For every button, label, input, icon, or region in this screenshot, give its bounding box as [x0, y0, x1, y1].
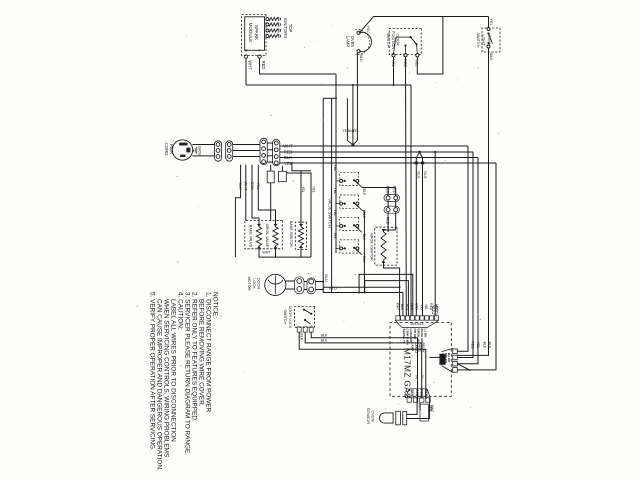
wire lock circuit second [331, 98, 333, 292]
M2 mating connector [439, 354, 445, 365]
door lock switch contacts [303, 309, 305, 311]
door lock motor [265, 274, 286, 295]
svg-text:YEL: YEL [311, 186, 315, 193]
wires between connector blocks [267, 142, 272, 144]
wire plug L1 [192, 144, 214, 146]
wire bus WHT upper [416, 145, 468, 147]
wire lamp blk to funnel [356, 53, 358, 141]
inline connector square 2 [279, 171, 287, 181]
svg-text:BLU: BLU [405, 304, 409, 311]
svg-text:GRN: GRN [197, 146, 202, 155]
valve switch 4 contacts [356, 247, 359, 250]
wire door sw red2 [405, 57, 408, 316]
svg-text:P1: P1 [420, 375, 424, 379]
svg-text:LIGHT: LIGHT [481, 34, 485, 46]
svg-text:LABEL ALL WIRES PRIOR TO DISCO: LABEL ALL WIRES PRIOR TO DISCONNECTION [170, 299, 177, 442]
svg-text:BAKE VALVE: BAKE VALVE [248, 225, 252, 248]
funnel convergence into WHT bus [353, 141, 358, 145]
svg-text:BLK: BLK [362, 211, 366, 218]
svg-text:WHT: WHT [430, 405, 434, 412]
valve switch 2 contacts [356, 202, 359, 205]
wire bus YEL upper [405, 162, 496, 164]
wire top bus vertical [373, 16, 489, 18]
terminal L [258, 55, 261, 58]
wire valve switch blade feeds [362, 187, 396, 189]
wire valve returns [259, 246, 311, 258]
wire stub to blu 1 [358, 274, 360, 292]
wire bake ignitor feed [292, 163, 311, 171]
svg-text:ORN: ORN [410, 303, 414, 311]
oven lamp [359, 32, 372, 51]
svg-text:BLK: BLK [400, 304, 404, 311]
bake valve coil [256, 227, 261, 246]
valve switch 1 box [340, 172, 359, 185]
svg-text:SPARK: SPARK [254, 25, 259, 41]
svg-text:BLK: BLK [299, 333, 303, 340]
clock connector pins [426, 398, 430, 402]
wire blade bus to blu [363, 211, 365, 293]
valve switch 1 contacts [356, 179, 359, 182]
terminal block row 2 [226, 141, 233, 161]
svg-text:BKRD: BKRD [424, 389, 428, 399]
svg-text:MODULE: MODULE [248, 23, 253, 43]
svg-text:BAKE IGNITOR: BAKE IGNITOR [289, 221, 293, 247]
wire bake ignitor return [300, 247, 302, 257]
valve switch 4 box [340, 240, 359, 253]
wire M2 run 4 [457, 163, 496, 370]
bake ignitor dashed box [295, 222, 306, 249]
svg-text:VIO: VIO [419, 305, 423, 311]
spark module body [245, 17, 265, 51]
control header funnel [428, 320, 439, 327]
wires motor to connectors [286, 280, 295, 282]
broil ignitor dashed box [375, 227, 397, 265]
svg-text:RED: RED [261, 61, 266, 70]
connector block row 4 [273, 139, 280, 165]
svg-text:RED: RED [385, 186, 389, 194]
svg-text:BLK: BLK [489, 53, 494, 61]
spark module dashed enclosure [242, 15, 267, 56]
svg-text:CORD: CORD [164, 143, 169, 156]
dsi connector pair 1 [384, 194, 399, 201]
svg-text:P4: P4 [414, 375, 418, 379]
broil ignitor element [381, 232, 386, 260]
wire dsi feed lower [387, 188, 389, 196]
wire bus RED vertical [280, 151, 410, 153]
terminal N [244, 55, 247, 58]
wire bus BLK vertical [280, 157, 423, 159]
svg-text:BLU: BLU [324, 274, 329, 282]
svg-text:WHT: WHT [395, 303, 399, 310]
inline connector square 1 [267, 171, 274, 183]
svg-text:SWITCH: SWITCH [283, 310, 287, 325]
svg-text:OVEN: OVEN [487, 35, 491, 46]
svg-text:DOOR LOCK: DOOR LOCK [288, 306, 292, 329]
wire light switch to M2 [458, 48, 489, 355]
svg-text:YEL: YEL [424, 304, 428, 310]
wire dsi feed upper [395, 188, 397, 196]
wire bus YEL vertical [280, 162, 405, 164]
wire from square 1 to valve box [270, 183, 272, 221]
svg-text:SWITCH: SWITCH [386, 33, 390, 48]
dsi connector pair 2 [384, 206, 399, 213]
svg-text:DOOR: DOOR [256, 278, 260, 290]
wire BLU main [323, 98, 403, 315]
V convergence on red bus [420, 152, 423, 158]
svg-text:BLK: BLK [417, 171, 421, 179]
door lock motor connector 2 [307, 278, 315, 294]
svg-text:IGNITORS: IGNITORS [283, 18, 288, 38]
svg-text:YEL: YEL [366, 25, 370, 32]
wire L red feed [260, 58, 337, 74]
svg-text:BLK: BLK [362, 256, 366, 263]
svg-text:YEL: YEL [333, 165, 337, 172]
scan speckles [444, 160, 445, 161]
wire valve feed 1 [235, 165, 240, 258]
valve switch 3 box [340, 217, 359, 230]
wire companion low to funnel [346, 98, 348, 140]
svg-text:YEL: YEL [333, 210, 337, 217]
wire nested L 3 [323, 287, 399, 315]
clock receptacle [420, 404, 428, 421]
wire bus RED upper [410, 151, 473, 153]
door position switch contacts [416, 54, 419, 57]
M2 connector funnel [442, 348, 453, 351]
svg-text:YEL: YEL [301, 186, 305, 193]
connector ticks on feed [421, 161, 424, 163]
svg-text:SWITCH: SWITCH [476, 33, 480, 48]
wire broil ignitor leads [384, 230, 396, 232]
door position switch dashed box [389, 29, 421, 55]
svg-text:GRY: GRY [415, 303, 419, 311]
svg-text:BEFORE REMOVING WIRE COVER.: BEFORE REMOVING WIRE COVER. [198, 299, 205, 407]
clock connector funnel [427, 389, 430, 398]
wire bus BLK upper [423, 157, 479, 159]
svg-text:RED: RED [429, 303, 433, 310]
wire nested L 2 [365, 281, 409, 316]
svg-text:RED: RED [470, 341, 474, 349]
wire header feed BLK [422, 158, 424, 316]
svg-text:YEL: YEL [476, 342, 480, 349]
wire valve switch bottom bus [335, 74, 337, 253]
diagonal wire at M2 [457, 364, 470, 371]
control header pins [434, 316, 438, 320]
wire bake valve feed [258, 218, 260, 227]
gas valve dashed box [245, 221, 283, 249]
svg-text:BLK: BLK [487, 342, 491, 349]
door lock switch dashed box [295, 307, 315, 328]
svg-text:BROIL VALVE: BROIL VALVE [265, 224, 269, 248]
door lock motor connector 1 [295, 277, 304, 294]
svg-text:WHT: WHT [262, 251, 271, 255]
bake ignitor element [298, 227, 303, 245]
svg-text:M17MZ GAS: M17MZ GAS [402, 348, 411, 399]
connector block row 3 [260, 138, 267, 164]
svg-text:YEL: YEL [333, 187, 337, 194]
svg-text:BLU: BLU [329, 285, 337, 290]
svg-text:3. SERVICER PLEASE RETURN DIAG: 3. SERVICER PLEASE RETURN DIAGRAM TO RAN… [184, 292, 191, 455]
svg-text:MOTOR: MOTOR [247, 276, 251, 290]
wire door sw yel1 [393, 57, 395, 85]
wire header feed neutral [410, 85, 412, 316]
wire door sw yel3 [417, 17, 443, 75]
wires between terminal blocks [233, 144, 260, 146]
spark electrode wires [269, 17, 278, 20]
wire neutral bus crossing [246, 84, 411, 86]
svg-text:LOCK: LOCK [252, 278, 256, 289]
wire valve switch top bus [357, 52, 359, 54]
svg-text:BLK: BLK [321, 339, 328, 343]
svg-text:BLK: BLK [359, 54, 364, 62]
M17MZ GAS dashed outline [390, 323, 451, 397]
wires lock switch to clock [311, 332, 417, 397]
svg-text:4. CAUTION:: 4. CAUTION: [177, 292, 184, 330]
wire stub to blu 2 [364, 281, 366, 293]
door lock switch terminals [309, 327, 313, 332]
svg-text:1. DISCONNECT RANGE FROM POWER: 1. DISCONNECT RANGE FROM POWER [205, 292, 212, 413]
svg-text:BLK: BLK [362, 189, 366, 196]
wires motor connector up [315, 281, 323, 283]
svg-text:WHEN SERVICING CONTROLS. WIRIN: WHEN SERVICING CONTROLS. WIRING PROBLEMS [163, 299, 170, 457]
wire M2 run 1 [457, 146, 468, 351]
svg-text:SENSE YL: SENSE YL [402, 329, 406, 344]
svg-text:CAN CAUSE IMPROPER AND DANGERO: CAN CAUSE IMPROPER AND DANGEROUS OPERATI… [156, 299, 163, 471]
svg-text:BROIL IGNITOR: BROIL IGNITOR [370, 233, 374, 261]
wire header feed WHT [415, 158, 417, 316]
svg-text:YEL: YEL [489, 18, 494, 26]
svg-text:YEL: YEL [342, 129, 349, 133]
wire N to neutral bus [245, 58, 247, 85]
svg-text:SENSOR: SENSOR [366, 408, 371, 425]
svg-text:N: N [243, 49, 248, 52]
terminal block row 1 [215, 141, 222, 161]
svg-text:WHT: WHT [418, 403, 422, 410]
svg-text:BLK: BLK [434, 304, 438, 311]
wire bus WHT vertical [280, 145, 417, 147]
svg-text:DOOR: DOOR [395, 34, 399, 46]
M2 connector pins [453, 349, 458, 354]
wire valve feed 4 [258, 165, 275, 227]
valve switch 3 contacts [356, 224, 359, 227]
wire companion mid to funnel [352, 85, 354, 141]
wire M2 run 3 [457, 158, 478, 364]
wire valve feed 2 [245, 165, 247, 221]
oven sensor connector bars [396, 411, 401, 425]
inline connector on red feed [433, 306, 438, 314]
wire yel3 bus junction [323, 97, 336, 99]
wire valve feed 3 [252, 165, 259, 218]
wire light switch left [488, 17, 490, 28]
wires sensor to clock [407, 398, 417, 415]
broil valve coil [273, 227, 278, 246]
svg-text:BLK: BLK [362, 234, 366, 241]
wire lamp to bus diagonal [360, 17, 374, 33]
svg-text:YEL: YEL [333, 232, 337, 239]
svg-text:BLK: BLK [483, 342, 487, 349]
svg-text:P1WH: P1WH [419, 389, 423, 399]
svg-text:5. VERIFY PROPER OPERATION AFT: 5. VERIFY PROPER OPERATION AFTER SERVICI… [149, 292, 156, 451]
oven light switch contacts [487, 28, 490, 31]
wire plug N [192, 155, 214, 157]
svg-text:RED: RED [385, 217, 389, 225]
wire from square 2 to bus [286, 173, 311, 257]
wire header feed red long [434, 152, 436, 316]
valve switch 2 box [340, 195, 359, 208]
spark module ignitor terminals [266, 18, 269, 21]
svg-text:WHT: WHT [248, 60, 253, 70]
wire M2 run 2 [457, 152, 473, 358]
svg-text:LAMP: LAMP [345, 36, 350, 48]
svg-text:NOTICE:: NOTICE: [212, 292, 219, 318]
svg-text:BLK: BLK [321, 334, 328, 338]
svg-text:BLK: BLK [423, 171, 427, 179]
oven sensor bulb [379, 413, 393, 423]
svg-text:SENS: SENS [410, 389, 414, 399]
wire nested L 1 [358, 274, 412, 315]
oven light switch dashed box [482, 28, 500, 52]
power cord plug [172, 140, 192, 160]
svg-text:2. REFER ONLY TO FEATURES EQUI: 2. REFER ONLY TO FEATURES EQUIPPED. [191, 292, 198, 422]
